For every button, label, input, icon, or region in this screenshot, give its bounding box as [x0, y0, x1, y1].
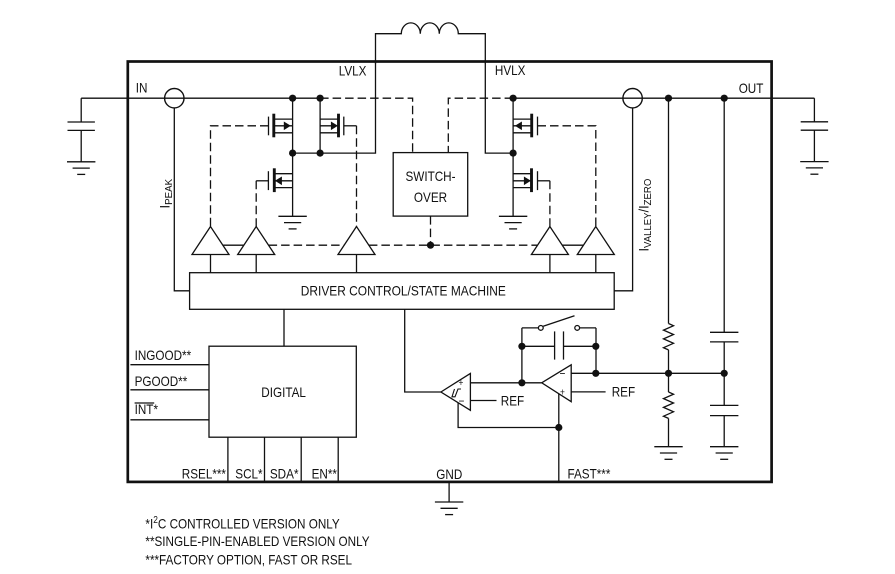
wire pin SDA — [300, 437, 302, 481]
wire switchover sense from IN (dashed) — [320, 98, 413, 152]
svg-text:+: + — [560, 387, 565, 398]
svg-text:IPEAK: IPEAK — [156, 178, 175, 208]
transistor M1 (input switch) — [269, 114, 293, 138]
wire R2 to ground — [668, 418, 670, 446]
capacitor C3 (feedback bottom) — [710, 405, 738, 415]
wire pin FAST — [558, 428, 560, 482]
block DRIVER CONTROL/STATE MACHINE — [190, 273, 615, 310]
wire pin EN — [337, 437, 339, 481]
svg-text:OVER: OVER — [414, 189, 447, 205]
wire U5 output to driver — [595, 255, 597, 273]
comparator U4 (HVLX low-side comparator) — [531, 227, 568, 255]
wire M1 gate net (dashed to comparator U1) — [211, 126, 269, 227]
block SWITCH-OVER — [393, 153, 468, 217]
wire comparator bus segment U4-U5 — [562, 244, 583, 246]
junction dot N14 FAST — [555, 424, 562, 431]
wire M4 drain-source column — [512, 98, 514, 153]
junction dot N11 C1 right — [592, 343, 599, 350]
capacitor COUT (external output cap) — [801, 98, 828, 161]
wire OUT to R1 — [668, 98, 670, 323]
svg-text:HVLX: HVLX — [495, 62, 526, 78]
wire IVALLEY/IZERO sense (OUT pin to driver box) — [614, 108, 632, 291]
svg-text:IVALLEY/IZERO: IVALLEY/IZERO — [635, 178, 654, 251]
wire LVLX node — [293, 62, 376, 153]
wire switch-over output (dashed) — [430, 216, 432, 245]
svg-text:OUT: OUT — [739, 80, 764, 96]
junction dot N16 C divider tap — [721, 370, 728, 377]
junction dot N3 OUT/M4 — [509, 95, 516, 102]
transistor M3 (LVLX low-side) — [268, 168, 292, 192]
wire pin GND — [448, 483, 450, 502]
ground (input cap) — [67, 162, 95, 175]
junction dot N6 LVLX/M1 — [289, 150, 296, 157]
switch S1 (feed-forward) — [522, 316, 596, 331]
wire U7 inverting input / feedback line — [571, 372, 724, 374]
junction dot N9 switchover/bus — [427, 242, 434, 249]
svg-text:−: − — [459, 395, 465, 408]
svg-text:DRIVER CONTROL/STATE MACHINE: DRIVER CONTROL/STATE MACHINE — [301, 282, 506, 298]
wire pin PGOOD — [130, 389, 209, 391]
pin IN circle — [165, 89, 184, 108]
wire C3 to ground — [723, 416, 725, 447]
wire comparator bus segment U1-U2 — [223, 244, 244, 246]
svg-text:IN: IN — [136, 79, 148, 95]
junction dot N15 R divider tap — [665, 370, 672, 377]
junction dot N2 IN/M2 — [317, 95, 324, 102]
junction dot N1 IN/M1 — [289, 95, 296, 102]
wire OUT rail — [513, 97, 814, 99]
svg-text:+: + — [459, 377, 464, 388]
wire M3 gate net dashed — [255, 181, 257, 227]
wire M3 gate lead — [256, 180, 268, 182]
wire M5 gate lead — [538, 180, 550, 182]
svg-text:RSEL***: RSEL*** — [182, 465, 226, 481]
svg-text:FAST***: FAST*** — [568, 465, 611, 481]
inductor L1 (external, between LVLX and HVLX) — [376, 23, 486, 64]
junction dot N13 feedback/C1 — [592, 370, 599, 377]
wire M3 column to ground — [292, 153, 294, 216]
block DIGITAL — [209, 346, 356, 437]
svg-text:DIGITAL: DIGITAL — [261, 384, 306, 400]
ground (R2) — [654, 447, 682, 460]
wire switched-cap right leg — [595, 328, 597, 373]
junction dot N7 LVLX/M2 — [317, 150, 324, 157]
wire U3 output to driver — [356, 255, 358, 273]
wire M1 drain-source column — [292, 98, 294, 153]
svg-text:LVLX: LVLX — [339, 62, 367, 78]
wire driver to digital — [283, 309, 285, 346]
ground (output cap) — [800, 162, 828, 175]
wire U6 noninverting input / U7 output — [470, 382, 541, 384]
ground (M3 source) — [278, 216, 306, 229]
ground (GND pin) — [435, 502, 463, 515]
ground (C3) — [710, 447, 738, 460]
wire M2 gate net dashed — [356, 126, 358, 227]
wire IN rail — [81, 97, 320, 99]
svg-text:REF: REF — [612, 383, 636, 399]
wire C2 to C3 — [723, 342, 725, 406]
svg-text:EN**: EN** — [312, 465, 337, 481]
junction dot N12 U7 output — [518, 379, 525, 386]
resistor R1 (feedback top) — [664, 324, 674, 350]
wire M5 gate net dashed — [549, 181, 551, 227]
svg-text:GND: GND — [436, 466, 462, 482]
svg-text:*I2C CONTROLLED VERSION ONLY: *I2C CONTROLLED VERSION ONLY — [145, 514, 340, 531]
pin OUT circle — [623, 89, 642, 108]
wire M2 drain-source column — [319, 98, 321, 153]
svg-text:**SINGLE-PIN-ENABLED VERSION O: **SINGLE-PIN-ENABLED VERSION ONLY — [145, 533, 369, 549]
svg-text:SWITCH-: SWITCH- — [405, 168, 455, 184]
comparator U5 (IVALLEY/IZERO comparator) — [577, 227, 614, 255]
wire comparator bus dashed U2-U3 — [269, 244, 345, 246]
wire M4 gate net (dashed to comparator U5) — [538, 126, 596, 227]
svg-text:***FACTORY OPTION, FAST OR RSE: ***FACTORY OPTION, FAST OR RSEL — [145, 551, 352, 567]
svg-text:SCL*: SCL* — [235, 465, 262, 481]
junction dot N8 HVLX — [509, 150, 516, 157]
wire U4 output to driver — [549, 255, 551, 273]
capacitor C2 (feedback top) — [710, 332, 738, 342]
wire U6 enable from FAST — [458, 403, 559, 428]
transistor M2 (input switch, back-to-back) — [320, 114, 344, 138]
op-amp U7 (error amplifier) — [542, 365, 572, 402]
junction dot N10 C1 left — [518, 343, 525, 350]
IC boundary box — [128, 62, 772, 482]
wire R1 to R2 — [668, 350, 670, 392]
wire pin INT — [130, 419, 209, 421]
capacitor C1 (feed-forward cap) — [522, 331, 596, 359]
wire U6 inverting input to REF — [470, 400, 496, 402]
junction dot N4 OUT/R1 — [665, 95, 672, 102]
svg-text:SDA*: SDA* — [270, 465, 299, 481]
resistor R2 (feedback bottom) — [664, 392, 674, 418]
wire comparator bus dashed U3-U4 — [369, 244, 538, 246]
svg-text:REF: REF — [501, 392, 525, 408]
svg-text:INGOOD**: INGOOD** — [135, 347, 192, 363]
wire U2 output to driver — [255, 255, 257, 273]
wire U7 noninverting input to REF — [571, 391, 605, 393]
wire M5 column to ground — [512, 153, 514, 216]
wire IPEAK sense (IN pin to driver box) — [174, 108, 189, 291]
wire pin RSEL — [227, 437, 229, 481]
wire switched-cap left leg — [521, 328, 523, 383]
wire OUT to C2 — [723, 98, 725, 332]
wire U1 output to driver — [210, 255, 212, 273]
wire switchover sense from OUT (dashed) — [448, 98, 513, 152]
comparator U2 (LVLX low-side comparator) — [238, 227, 275, 255]
transistor M4 (HVLX high-side) — [513, 114, 537, 138]
pin label INT* (overlined) — [135, 401, 158, 417]
capacitor CIN (external input cap) — [68, 98, 95, 162]
comparator U1 (IPEAK comparator) — [192, 227, 229, 255]
junction dot N5 OUT/C2 — [721, 95, 728, 102]
wire pin SCL — [264, 437, 266, 481]
wire HVLX node — [485, 62, 513, 153]
op-amp U6 (hysteretic comparator) — [441, 373, 471, 410]
comparator U3 (switch comparator) — [338, 227, 375, 255]
ground (M5 source) — [499, 216, 527, 229]
wire U7 enable from FAST — [558, 394, 560, 428]
wire driver to fast comparator output — [405, 309, 441, 392]
svg-text:−: − — [560, 368, 566, 381]
wire M2 gate lead — [344, 125, 357, 127]
transistor M5 (HVLX low-side) — [513, 168, 537, 192]
wire pin INGOOD — [130, 364, 209, 366]
svg-text:PGOOD**: PGOOD** — [135, 373, 188, 389]
